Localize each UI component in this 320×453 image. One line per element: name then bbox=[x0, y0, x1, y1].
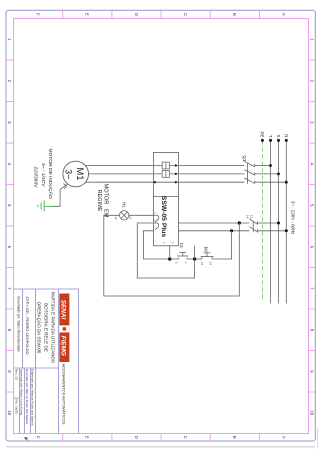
lamp caption bbox=[96, 184, 109, 218]
svg-text:Nro.: 02: Nro.: 02 bbox=[15, 369, 19, 380]
drawing title bbox=[36, 292, 55, 364]
svg-text:9: 9 bbox=[309, 370, 314, 373]
svg-text:S: S bbox=[276, 135, 281, 138]
ground (earth) symbol bbox=[38, 201, 53, 212]
svg-text:b0: b0 bbox=[203, 247, 208, 252]
svg-text:M1: M1 bbox=[75, 167, 86, 180]
svg-text:Elaborado por: Marcos Paulo d: Elaborado por: Marcos Paulo dos Santos bbox=[31, 369, 35, 426]
relay contact hooks inside box bottom bbox=[154, 215, 159, 230]
svg-text:MOTOR EM: MOTOR EM bbox=[103, 184, 109, 218]
pin number labels on box bbox=[154, 212, 175, 244]
svg-text:BOTOEIRA E RELE DE: BOTOEIRA E RELE DE bbox=[44, 303, 49, 352]
wire: branch A (S phase to lamp H1) bbox=[104, 215, 240, 296]
svg-text:F: F bbox=[36, 13, 41, 16]
svg-text:3~ - 1/4CV: 3~ - 1/4CV bbox=[40, 163, 46, 187]
svg-text:14: 14 bbox=[246, 215, 250, 219]
wire: motor PE bond bbox=[52, 184, 67, 206]
pushbutton b0 (NC) bbox=[201, 253, 214, 259]
wire: between b0 and b1 bbox=[187, 258, 202, 260]
svg-text:SSW-05 Plus: SSW-05 Plus bbox=[160, 196, 167, 238]
svg-text:10: 10 bbox=[7, 410, 12, 415]
thyristor module on L1 bbox=[162, 162, 169, 169]
wire: supply rail T bbox=[270, 140, 272, 303]
svg-text:6: 6 bbox=[7, 246, 12, 249]
page shadow top-right corner bbox=[317, 428, 319, 449]
node: branch A tap bbox=[238, 221, 241, 224]
svg-text:10: 10 bbox=[309, 410, 314, 415]
svg-text:8: 8 bbox=[309, 329, 314, 332]
PE arrowhead at motor bbox=[63, 184, 66, 189]
svg-text:C: C bbox=[183, 436, 188, 439]
svg-text:B: B bbox=[232, 13, 237, 16]
svg-text:3: 3 bbox=[7, 121, 12, 124]
breaker Q1 (3-pole disconnect) bbox=[244, 161, 254, 184]
svg-text:4: 4 bbox=[161, 242, 165, 244]
soft starter U1 SSW-05 Plus bbox=[154, 152, 179, 245]
svg-text:D: D bbox=[134, 436, 139, 439]
svg-text:F: F bbox=[36, 436, 41, 439]
svg-text:Q1: Q1 bbox=[242, 155, 247, 162]
node: D1 junction bbox=[193, 257, 196, 260]
svg-text:Desenhado por: Tadeu Vieira M: Desenhado por: Tadeu Vieira Machado bbox=[16, 297, 20, 352]
wire: D1 to SSW pin bbox=[194, 246, 196, 259]
svg-text:E: E bbox=[85, 436, 90, 439]
cursor arrow artifact bbox=[24, 435, 30, 441]
motor M1 (3-phase induction) bbox=[63, 161, 89, 187]
svg-text:4: 4 bbox=[7, 163, 12, 166]
pin dots inside box bbox=[175, 164, 177, 166]
wire: D1 loop around box to DI pin bbox=[137, 223, 194, 278]
wire: phase L1 (T) to motor bbox=[85, 165, 270, 167]
svg-text:5: 5 bbox=[309, 204, 314, 207]
wire: control line from R bbox=[179, 230, 287, 232]
wire: below b1 to DI common loop bbox=[144, 231, 179, 259]
node labels R S T PE bbox=[260, 131, 289, 138]
wire: supply rail S bbox=[278, 140, 280, 303]
svg-text:x1: x1 bbox=[129, 216, 133, 219]
motor rating label bbox=[32, 149, 54, 199]
page shadow right bbox=[6, 446, 315, 448]
svg-text:2: 2 bbox=[309, 80, 314, 83]
thyristor module on L2 bbox=[162, 171, 169, 178]
svg-text:4: 4 bbox=[309, 163, 314, 166]
svg-text:B: B bbox=[232, 436, 237, 439]
title block grid bbox=[14, 289, 79, 434]
svg-text:OPERAÇÃO DA SSW-05: OPERAÇÃO DA SSW-05 bbox=[36, 302, 42, 354]
svg-text:1: 1 bbox=[7, 38, 12, 41]
wire: phase L3 (R) to motor bbox=[86, 181, 286, 183]
svg-text:FIEMG: FIEMG bbox=[60, 336, 67, 356]
svg-text:1: 1 bbox=[184, 262, 188, 264]
svg-text:PE: PE bbox=[260, 131, 265, 137]
svg-text:8: 8 bbox=[7, 329, 12, 332]
node: branch B tap bbox=[230, 229, 233, 232]
lamp H1 (motor running) bbox=[120, 211, 129, 220]
wire: D2 to SSW pin bbox=[169, 246, 171, 259]
svg-text:1: 1 bbox=[309, 38, 314, 41]
wire: branch B to pushbutton chain bbox=[212, 231, 232, 259]
wire: phase L2 (S) to motor bbox=[89, 173, 279, 175]
svg-text:2: 2 bbox=[7, 80, 12, 83]
svg-text:5: 5 bbox=[7, 204, 12, 207]
svg-text:ACIONAMENTOS AUTOMÁTICOS: ACIONAMENTOS AUTOMÁTICOS bbox=[62, 364, 67, 425]
svg-text:H1: H1 bbox=[121, 202, 126, 208]
svg-text:1: 1 bbox=[154, 212, 158, 214]
wire: PE rail (green dashed) bbox=[261, 140, 263, 301]
svg-text:6: 6 bbox=[309, 246, 314, 249]
svg-text:b1: b1 bbox=[179, 243, 184, 248]
svg-text:3~: 3~ bbox=[63, 169, 73, 179]
svg-text:7: 7 bbox=[7, 287, 12, 290]
svg-text:E: E bbox=[85, 13, 90, 16]
svg-text:3~ - 220V - 60Hz: 3~ - 220V - 60Hz bbox=[291, 201, 296, 234]
contact Q2 (2-pole aux disconnect) bbox=[249, 219, 257, 233]
wire: supply rail R bbox=[285, 140, 287, 303]
logo SENAI FIEMG bbox=[59, 294, 69, 363]
svg-text:SENAI: SENAI bbox=[60, 300, 67, 320]
svg-text:D: D bbox=[134, 13, 139, 16]
svg-text:220/380V: 220/380V bbox=[32, 167, 38, 189]
svg-text:3: 3 bbox=[309, 121, 314, 124]
wire: control line from S bbox=[179, 222, 279, 224]
svg-text:13: 13 bbox=[249, 215, 253, 219]
svg-text:Revisado por: Marcos Paulo do: Revisado por: Marcos Paulo dos Santos bbox=[25, 369, 29, 425]
svg-text:C: C bbox=[183, 13, 188, 16]
svg-text:A: A bbox=[281, 436, 286, 439]
svg-text:7: 7 bbox=[309, 287, 314, 290]
svg-text:R: R bbox=[284, 134, 289, 138]
svg-text:3: 3 bbox=[170, 242, 174, 244]
svg-text:14: 14 bbox=[200, 262, 204, 266]
wire: lamp to SSW relay output pin bbox=[129, 214, 154, 216]
svg-text:Fls.: 06/25: Fls.: 06/25 bbox=[15, 400, 19, 415]
svg-text:MOTOR DE INDUÇÃO: MOTOR DE INDUÇÃO bbox=[47, 149, 54, 199]
svg-text:9: 9 bbox=[7, 370, 12, 373]
svg-text:13: 13 bbox=[209, 262, 213, 266]
svg-text:REGIME: REGIME bbox=[96, 189, 102, 211]
svg-text:x2: x2 bbox=[114, 217, 118, 220]
pushbutton b1 (NO) bbox=[177, 253, 188, 259]
svg-text:CFP / GD - PEDRO LEOPOLDO: CFP / GD - PEDRO LEOPOLDO bbox=[25, 297, 30, 355]
svg-text:Aprovado por: Mauro Lúcio Cos: Aprovado por: Mauro Lúcio Costa bbox=[20, 369, 24, 416]
node: D2 junction bbox=[168, 257, 171, 260]
svg-text:2: 2 bbox=[174, 262, 178, 264]
svg-text:A: A bbox=[281, 13, 286, 16]
svg-text:T: T bbox=[268, 135, 273, 138]
svg-text:PARTIDA E PARADA UTILIZANDO: PARTIDA E PARADA UTILIZANDO bbox=[51, 292, 56, 364]
